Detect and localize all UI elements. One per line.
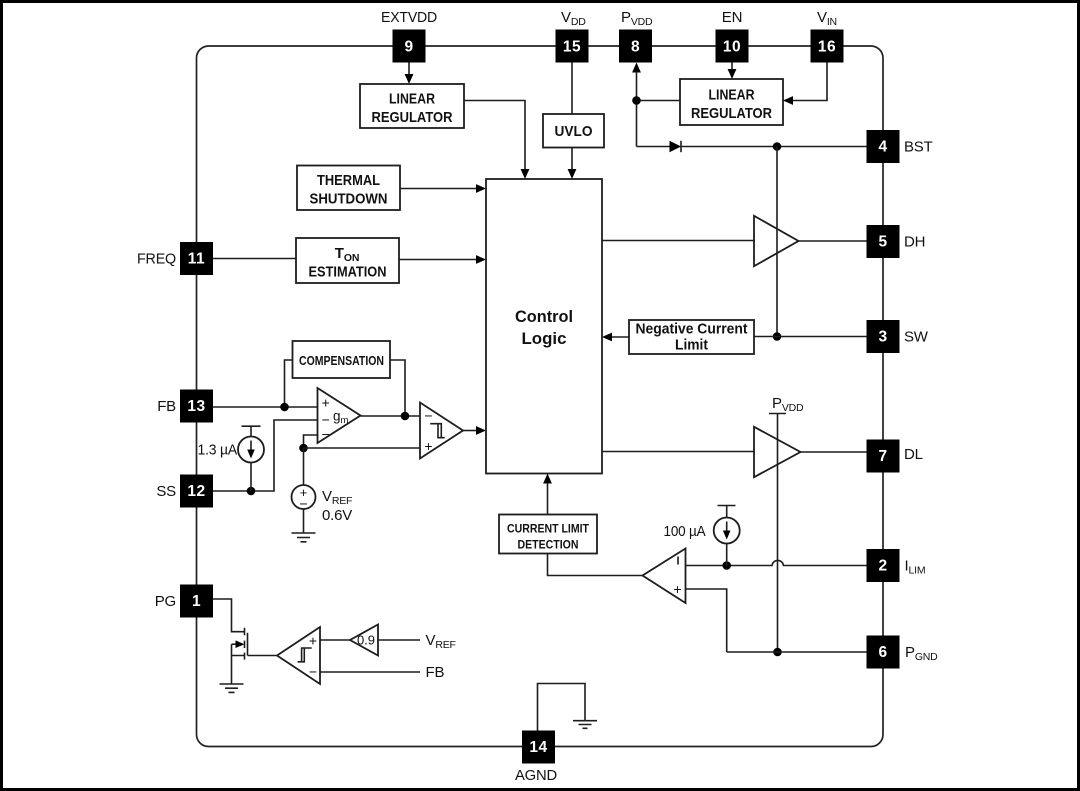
wire ILIM comparator top input to ILIM pin with hop	[686, 560, 867, 565]
MOSFET Q1 source and body wire to ground	[232, 644, 245, 684]
wire compensation right to gm output node	[390, 360, 405, 416]
ground symbol under MOSFET	[220, 684, 244, 692]
wire current limit detection to ILIM comparator output	[548, 554, 643, 576]
wire PVDD feed from right linear regulator	[637, 72, 681, 147]
arrowhead into control logic from PWM comparator	[476, 426, 486, 435]
pin 11 FREQ	[137, 242, 213, 275]
arrowhead into control logic from thermal shutdown	[476, 184, 486, 193]
PWM comparator hysteresis symbol	[430, 424, 445, 438]
wire current source to ILIM node	[726, 544, 728, 566]
svg-text:+: +	[673, 581, 681, 597]
junction node 100uA/ILIM	[722, 561, 731, 570]
wire VDD pin 15 to UVLO	[571, 63, 573, 115]
svg-text:6: 6	[878, 644, 887, 661]
svg-text:FB: FB	[157, 398, 176, 415]
svg-text:Control: Control	[515, 307, 573, 326]
svg-text:Limit: Limit	[675, 338, 708, 354]
DH driver buffer U_DH	[754, 216, 799, 266]
wire 0.9 gain to PG comparator plus input	[320, 639, 351, 641]
wire BST rail from feed node through diode	[637, 146, 867, 148]
svg-text:10: 10	[723, 39, 741, 56]
svg-text:FB: FB	[426, 664, 445, 681]
svg-text:3: 3	[878, 329, 887, 346]
compensation block	[293, 341, 391, 378]
wire VREF node to PWM comparator plus input	[304, 447, 422, 449]
PWM comparator U_PWM	[420, 403, 463, 459]
svg-text:UVLO: UVLO	[555, 123, 593, 140]
pin 13 FB	[157, 390, 213, 423]
wire control logic to DH driver	[602, 240, 755, 242]
arrowhead into control logic top	[521, 169, 530, 179]
svg-text:CURRENT LIMIT: CURRENT LIMIT	[507, 522, 590, 536]
svg-text:7: 7	[878, 448, 887, 465]
svg-text:1.3 µA: 1.3 µA	[198, 442, 238, 459]
wire FB pin 13 to gm amp plus input	[213, 406, 319, 408]
wire VREF node down to reference source	[303, 448, 305, 485]
pin 12 SS	[156, 475, 213, 508]
current source I1 circle	[238, 437, 264, 463]
wire FREQ pin 11 to TON estimation	[213, 258, 296, 260]
svg-text:12: 12	[187, 483, 205, 500]
junction node on BST rail	[773, 142, 782, 151]
svg-text:5: 5	[878, 234, 887, 251]
thermal shutdown block	[297, 166, 400, 211]
svg-text:LINEAR: LINEAR	[709, 87, 755, 104]
voltage reference source VREF 0.6V	[292, 485, 316, 509]
arrowhead into control logic from TON estimation	[476, 255, 486, 264]
pin 5 DH	[867, 225, 926, 258]
wire VIN pin 16 down to regulator input	[792, 63, 827, 101]
wire DH driver to pin 5	[799, 240, 867, 242]
svg-text:FREQ: FREQ	[137, 251, 176, 268]
svg-text:2: 2	[878, 558, 887, 575]
junction node on SW wire	[773, 332, 782, 341]
junction node at PVDD feed	[632, 96, 641, 105]
svg-text:DH: DH	[904, 234, 925, 251]
gm output wire to PWM comparator minus input	[361, 415, 422, 417]
svg-text:9: 9	[404, 39, 413, 56]
svg-text:14: 14	[529, 739, 547, 756]
wire current source to SS node	[250, 463, 252, 492]
wire EN pin 10 to right linear regulator	[731, 63, 733, 71]
svg-text:15: 15	[563, 39, 581, 56]
gm error amplifier U_GM	[318, 388, 361, 443]
svg-text:Negative Current: Negative Current	[636, 322, 748, 338]
pin 3 SW	[867, 320, 929, 353]
svg-text:REGULATOR: REGULATOR	[691, 105, 772, 122]
junction node VREF	[299, 444, 308, 453]
ILIM comparator minus tick	[677, 557, 679, 565]
linear regulator U_LIN1	[360, 84, 464, 128]
svg-text:BST: BST	[904, 139, 933, 156]
wire AGND pin to internal ground	[538, 684, 586, 732]
wire SW pin to negative current limit	[754, 336, 867, 338]
pin 1 PG	[155, 585, 213, 618]
wire FB to PG comparator minus input	[320, 671, 420, 673]
gain block 0.9	[350, 625, 378, 656]
svg-text:EN: EN	[722, 9, 742, 26]
svg-text:+: +	[322, 395, 330, 411]
arrowhead into control logic bottom from current limit detection	[543, 474, 552, 484]
current source I2 circle	[714, 518, 740, 544]
svg-text:EXTVDD: EXTVDD	[381, 9, 437, 26]
pin 4 BST	[867, 130, 933, 163]
pin 16 VIN	[811, 9, 844, 63]
arrowhead into right linear regulator	[728, 69, 737, 79]
PG comparator hysteresis symbol	[298, 648, 312, 662]
svg-text:DL: DL	[904, 446, 923, 463]
svg-text:13: 13	[187, 398, 205, 415]
svg-text:SS: SS	[156, 483, 176, 500]
current source I1 arrow	[250, 441, 252, 451]
pin 14 AGND	[515, 731, 557, 785]
ground symbol under reference	[292, 533, 316, 542]
svg-text:THERMAL: THERMAL	[317, 172, 380, 189]
svg-text:−: −	[424, 408, 432, 424]
wire current limit detection to control logic	[547, 483, 549, 515]
wire thermal shutdown to control logic	[400, 188, 477, 190]
svg-text:SW: SW	[904, 329, 929, 346]
pin 8 PVDD	[619, 9, 653, 63]
arrowhead into linear regulator	[405, 74, 414, 84]
svg-text:16: 16	[818, 39, 836, 56]
ILIM comparator U_ILIM	[643, 549, 686, 604]
wire 0.9 gain input from VREF	[378, 639, 420, 641]
current source I1 1.3uA top bar	[242, 426, 261, 437]
UVLO block	[543, 114, 604, 148]
PVDD rail top bar	[769, 413, 786, 415]
wire ILIM comparator plus input to PGND wire	[686, 589, 727, 652]
svg-text:−: −	[322, 426, 330, 442]
wire PG comparator gate drive	[248, 655, 278, 657]
svg-text:0.9: 0.9	[357, 633, 375, 648]
svg-text:0.6V: 0.6V	[322, 507, 352, 524]
pin 9 EXTVDD	[381, 9, 437, 63]
svg-text:−: −	[309, 664, 317, 680]
svg-text:8: 8	[631, 39, 640, 56]
wire compensation left to FB node	[285, 360, 293, 407]
junction node FB/compensation	[280, 403, 289, 412]
wire PG pin 1 to MOSFET drain	[213, 599, 245, 632]
svg-text:+: +	[309, 633, 317, 649]
svg-text:11: 11	[188, 251, 205, 268]
svg-text:SHUTDOWN: SHUTDOWN	[310, 191, 388, 208]
junction node on SS wire	[247, 487, 256, 496]
arrowhead into control logic from negative current limit	[602, 333, 612, 342]
DL driver buffer U_DL	[754, 427, 801, 477]
pin 2 ILIM	[867, 549, 926, 582]
pin 6 PGND	[867, 636, 939, 669]
ground symbol at AGND	[573, 721, 597, 729]
arrowhead into regulator right edge	[783, 96, 793, 105]
IC boundary rounded rectangle	[197, 46, 884, 747]
wire UVLO to control logic	[571, 148, 573, 170]
wire SS pin 12 to gm amp minus input	[213, 420, 319, 491]
pin 10 EN	[716, 9, 749, 63]
svg-text:4: 4	[878, 139, 887, 156]
wire PGND to pin 6	[727, 651, 867, 653]
wire TON estimation to control logic	[399, 259, 477, 261]
current source I2 100uA top bar	[718, 506, 736, 519]
svg-text:COMPENSATION: COMPENSATION	[299, 353, 384, 368]
svg-text:Logic: Logic	[522, 329, 567, 348]
diode cathode bar	[680, 141, 682, 152]
MOSFET Q1 channel segments	[244, 628, 246, 660]
junction node on PGND wire	[773, 648, 782, 657]
wire reference to ground	[303, 509, 305, 533]
svg-text:DETECTION: DETECTION	[518, 538, 579, 552]
MOSFET Q1 body arrow	[232, 643, 241, 645]
current limit detection block	[499, 515, 597, 554]
PG comparator U_PG	[277, 627, 320, 684]
wire control logic to DL driver	[602, 451, 755, 453]
wire VREF node to gm bottom minus input	[304, 435, 319, 448]
wire DL driver to pin 7	[801, 451, 867, 453]
linear regulator U_LIN2	[680, 79, 783, 125]
TON estimation block	[296, 238, 399, 283]
svg-text:REGULATOR: REGULATOR	[372, 109, 453, 126]
svg-text:AGND: AGND	[515, 767, 557, 784]
wire EXTVDD pin 9 to left linear regulator	[408, 63, 410, 76]
arrowhead into control logic top from UVLO	[568, 169, 577, 179]
arrowhead into PVDD pin 8	[632, 63, 641, 73]
wire BST node down to SW node	[776, 147, 778, 337]
svg-text:ESTIMATION: ESTIMATION	[309, 264, 387, 281]
diode D1	[670, 141, 682, 152]
current source I2 arrow	[726, 522, 728, 532]
PVDD rail wire down to PGND wire	[777, 414, 779, 653]
svg-text:+: +	[424, 438, 432, 454]
control logic block U_CTRL	[486, 179, 602, 474]
pin 15 VDD	[556, 9, 589, 63]
junction node gm output/compensation	[401, 412, 410, 421]
svg-text:100 µA: 100 µA	[664, 523, 706, 540]
MOSFET Q1 gate bar	[247, 633, 249, 656]
negative current limit block	[629, 320, 754, 354]
wire linear regulator to control logic	[464, 101, 525, 170]
svg-text:LINEAR: LINEAR	[389, 91, 435, 108]
pin 7 DL	[867, 440, 923, 473]
wire PWM comparator output to control logic	[463, 430, 477, 432]
svg-text:PG: PG	[155, 593, 176, 610]
svg-text:1: 1	[192, 593, 201, 610]
wire negative current limit to control logic	[612, 336, 630, 338]
